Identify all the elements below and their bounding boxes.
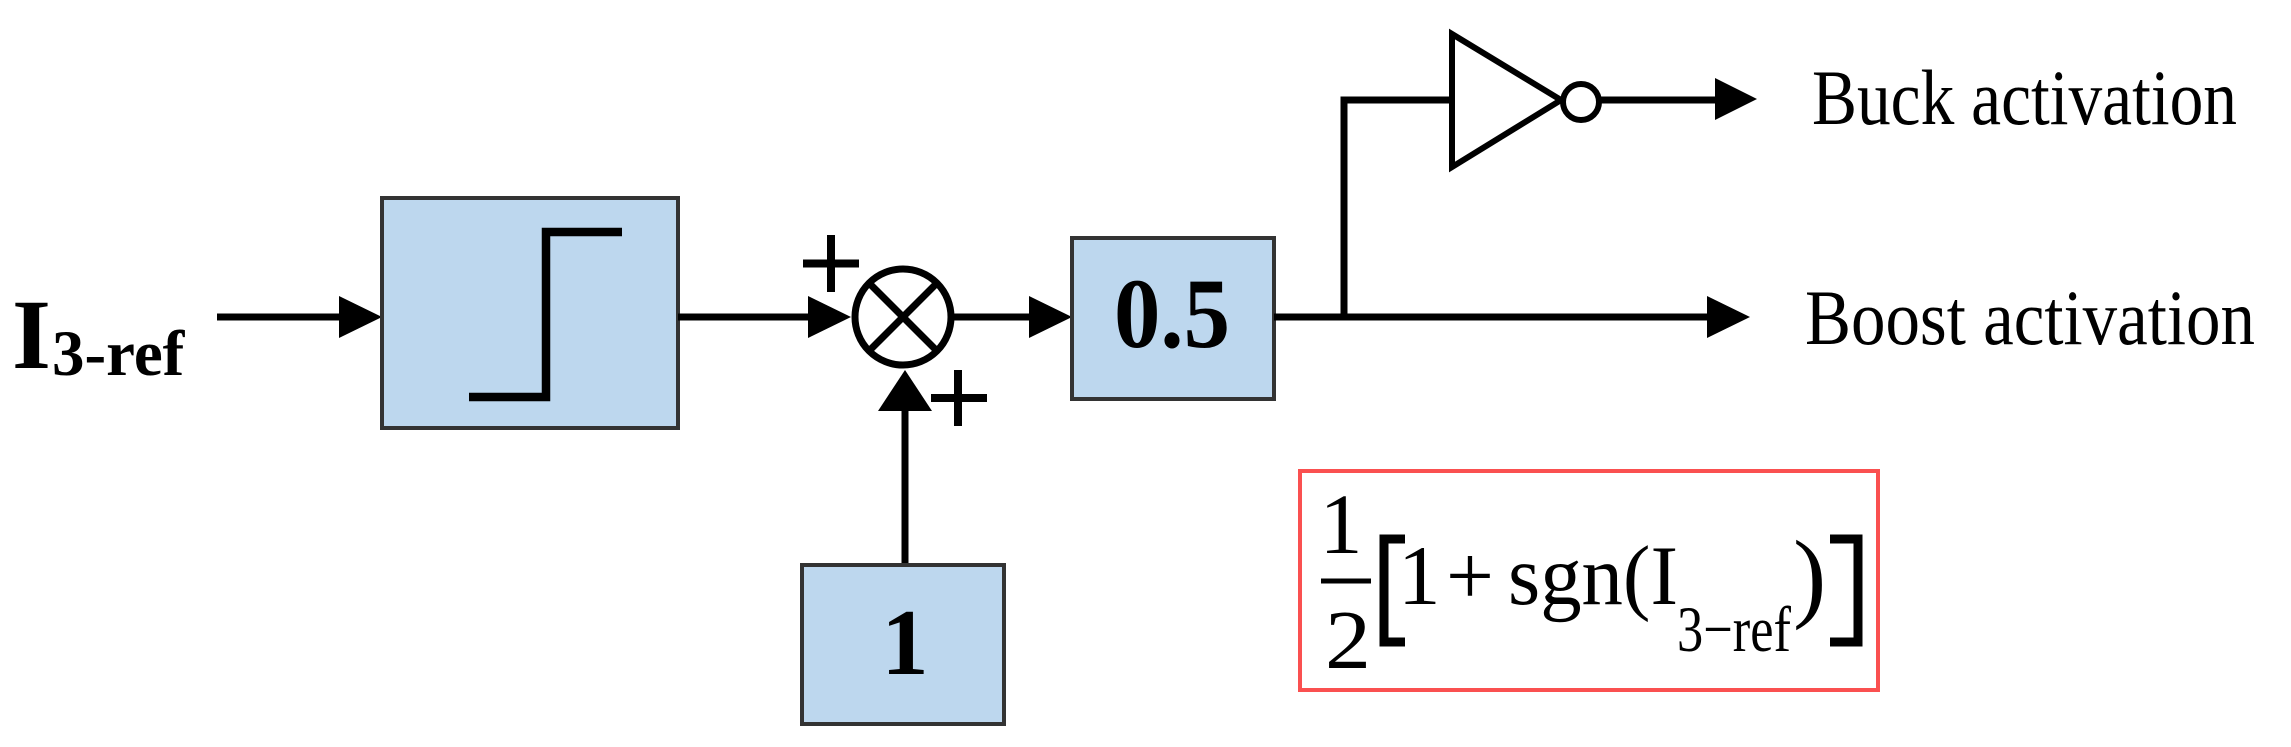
svg-text:2: 2	[1325, 594, 1371, 687]
svg-text:): )	[1793, 520, 1826, 631]
svg-text:Boost activation: Boost activation	[1805, 274, 2255, 361]
svg-text:1: 1	[1398, 529, 1441, 623]
svg-text:+: +	[1446, 529, 1494, 623]
svg-text:3−ref: 3−ref	[1677, 594, 1791, 666]
svg-text:Buck activation: Buck activation	[1812, 54, 2237, 141]
svg-text:I: I	[12, 279, 51, 390]
svg-text:sgn(I: sgn(I	[1508, 529, 1678, 623]
svg-text:0.5: 0.5	[1114, 258, 1230, 369]
svg-text:1: 1	[1320, 476, 1363, 572]
svg-text:3-ref: 3-ref	[52, 318, 186, 390]
svg-text:1: 1	[882, 591, 929, 695]
